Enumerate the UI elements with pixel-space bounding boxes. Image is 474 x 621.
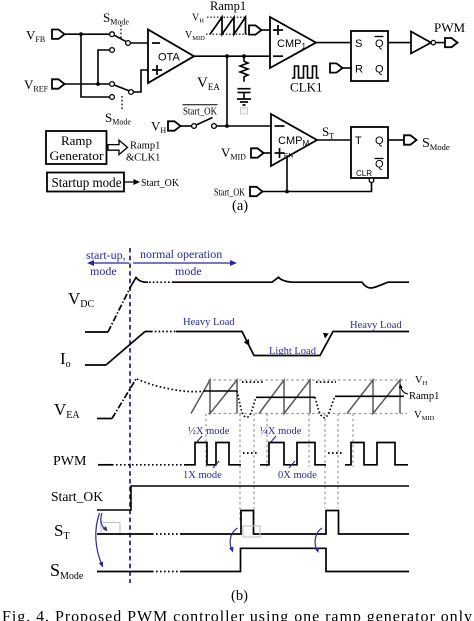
blue arrow Start_OK to ST	[101, 513, 106, 530]
wire ramp pin to CMP1 plus	[262, 29, 271, 31]
blue arrow ST pulse2 to SMode fall	[315, 528, 322, 551]
wire S2 to OTA plus	[133, 70, 148, 92]
switch S1 blade	[114, 35, 126, 41]
junction EN wire	[285, 190, 289, 194]
junction VEA-RC	[242, 54, 246, 58]
wire CLK pin to R	[343, 67, 352, 69]
waveform SMode	[97, 571, 152, 573]
resistor (compensation)	[240, 56, 248, 82]
OTA minus sign	[152, 42, 160, 44]
T flip-flop U2	[351, 127, 388, 178]
SMode dotted control bottom	[121, 96, 123, 110]
wire Q to SMode pin	[388, 139, 404, 141]
wire VH to switch	[181, 125, 192, 127]
wire EN to CMPM	[286, 157, 288, 192]
pin VFB	[52, 30, 65, 39]
pin VMID	[251, 148, 264, 157]
gray dashed VMID level	[208, 413, 407, 415]
svg-text:½X mode: ½X mode	[188, 426, 230, 437]
svg-text:T: T	[355, 135, 362, 147]
waveform VDC	[85, 331, 108, 333]
waveform Start_OK	[97, 486, 409, 510]
OTA plus sign	[152, 69, 162, 71]
svg-text:Startup mode: Startup mode	[52, 175, 122, 190]
arrow start-up span	[89, 262, 129, 264]
pin Start_OK	[250, 187, 263, 196]
box Startup mode	[47, 173, 124, 192]
dotted peak continuation 2	[316, 381, 336, 383]
pin CLK1 to R	[330, 63, 343, 72]
pin VREF	[52, 79, 65, 88]
capacitor (compensation)	[238, 88, 251, 90]
svg-text:0X mode: 0X mode	[278, 470, 317, 481]
wire inverter to PWM pin	[436, 42, 446, 44]
svg-text:1X mode: 1X mode	[183, 470, 222, 481]
gray ramp group 3	[347, 380, 400, 414]
op-amp OTA	[148, 30, 194, 84]
svg-text:PWM: PWM	[53, 454, 87, 469]
svg-text:mode: mode	[175, 264, 202, 278]
svg-text:Ramp: Ramp	[61, 133, 92, 148]
svg-text:(a): (a)	[232, 198, 248, 214]
svg-text:(b): (b)	[231, 588, 248, 604]
switch Start_OK blade	[196, 118, 212, 126]
double arrow ramp generator output	[108, 140, 128, 154]
wire VFB to switch row1	[65, 33, 110, 35]
blue arrow Start_OK to SMode	[96, 513, 102, 565]
gray ramp group 2	[259, 380, 310, 414]
inverter (PWM driver)	[411, 32, 431, 54]
waveform PWM	[98, 464, 112, 466]
svg-text:Light Load: Light Load	[269, 346, 317, 357]
gray vertical guides	[205, 414, 207, 468]
pin SMode output	[404, 135, 417, 144]
svg-text:PWM: PWM	[434, 20, 466, 35]
comparator CMP1	[270, 17, 316, 68]
wire CMPM out (ST) to T flip-flop	[317, 139, 351, 141]
svg-text:Q: Q	[375, 159, 384, 171]
svg-text:Start_OK: Start_OK	[183, 107, 217, 118]
wire VREF to switch row3	[65, 83, 110, 85]
junction VEA-to-switch	[225, 54, 229, 58]
pin ramp to CMP1	[249, 25, 262, 34]
svg-text:Q: Q	[375, 135, 384, 147]
svg-text:CLR: CLR	[356, 169, 372, 178]
CLK1 waveform icon	[292, 66, 319, 78]
svg-text:CLK1: CLK1	[290, 80, 323, 95]
svg-text:Q: Q	[375, 38, 384, 50]
SMode dotted control top	[120, 25, 122, 40]
box Ramp Generator	[46, 131, 107, 164]
comparator CMPM	[271, 114, 317, 166]
svg-text:Start_OK: Start_OK	[214, 188, 245, 199]
svg-text:Start_OK: Start_OK	[51, 489, 103, 504]
pin VH	[168, 121, 181, 130]
wire Start_OK to CLR	[263, 183, 372, 192]
ramp waveform icon	[210, 17, 246, 34]
gray ramp group 1	[191, 380, 237, 414]
figure caption (clipped at page bottom)	[2, 609, 472, 621]
dotted peak continuation 1	[242, 381, 263, 383]
blue dashed divider	[129, 248, 131, 583]
svg-text:Start_OK: Start_OK	[141, 178, 179, 189]
wire VEA down to VH switch node	[226, 56, 228, 126]
svg-text:Ramp1: Ramp1	[130, 141, 160, 152]
svg-text:Heavy Load: Heavy Load	[350, 320, 402, 331]
arrow Io falling	[244, 339, 250, 346]
gray dashed VH level	[208, 379, 407, 381]
svg-text:OTA: OTA	[158, 52, 180, 64]
wire CMP1 out to SR latch S	[316, 42, 351, 44]
switch S2 blade	[114, 85, 128, 91]
wire OTA output (VEA) to CMP1 minus	[194, 55, 270, 57]
switch S1 (SMode) contacts	[110, 32, 115, 37]
junction VREF	[96, 82, 100, 86]
svg-text:Generator: Generator	[50, 148, 105, 163]
svg-text:Fig. 4. Proposed PWM controll: Fig. 4. Proposed PWM controller using on…	[2, 609, 472, 621]
arrow startup output	[124, 181, 135, 183]
ghost box ST pulse1	[243, 526, 260, 537]
wire VREF up to switch row2	[98, 50, 110, 84]
SR latch U1	[351, 31, 388, 81]
wire S1 to OTA minus	[130, 42, 148, 44]
ghost box ST initial	[101, 523, 120, 535]
junction VH switch node	[225, 124, 229, 128]
wire VFB down to switch row4	[81, 34, 110, 97]
CMP1 plus sign	[273, 29, 283, 31]
waveform VEA	[97, 418, 112, 420]
svg-text:normal operation: normal operation	[140, 247, 222, 261]
svg-text:start-up,: start-up,	[86, 248, 126, 262]
CLR bubble	[369, 178, 374, 183]
waveform ST	[97, 533, 152, 535]
svg-text:S: S	[355, 38, 362, 50]
svg-text:¼X mode: ¼X mode	[260, 426, 302, 437]
wire VMID to CMPM plus	[264, 152, 272, 154]
VMID dotted level	[206, 33, 249, 35]
switch Start_OK contacts	[192, 124, 197, 129]
junction VFB	[79, 32, 83, 36]
VH dotted level	[207, 16, 246, 18]
wire Qbar to inverter	[388, 42, 411, 44]
arrow normal span	[133, 262, 235, 264]
svg-text:Ramp1: Ramp1	[409, 391, 439, 402]
svg-text:EN: EN	[284, 153, 293, 160]
blue arrow ST pulse1 to SMode rise	[230, 528, 237, 550]
switch S2 (SMode) contacts	[110, 82, 115, 87]
svg-text:mode: mode	[90, 264, 117, 278]
CMPM plus sign	[275, 152, 285, 154]
CMP1 minus sign	[273, 55, 283, 57]
svg-text:Q: Q	[375, 64, 384, 76]
svg-text:R: R	[355, 64, 363, 76]
pin PWM output	[445, 38, 458, 47]
svg-text:Ramp1: Ramp1	[210, 0, 246, 13]
svg-text:&CLK1: &CLK1	[126, 153, 160, 164]
svg-text:Heavy Load: Heavy Load	[183, 317, 235, 328]
waveform Io	[85, 364, 106, 366]
ground	[237, 98, 251, 100]
wire switch to CMPM minus	[216, 125, 271, 127]
arrow Io rising	[323, 333, 329, 339]
CMPM minus sign	[275, 125, 285, 127]
